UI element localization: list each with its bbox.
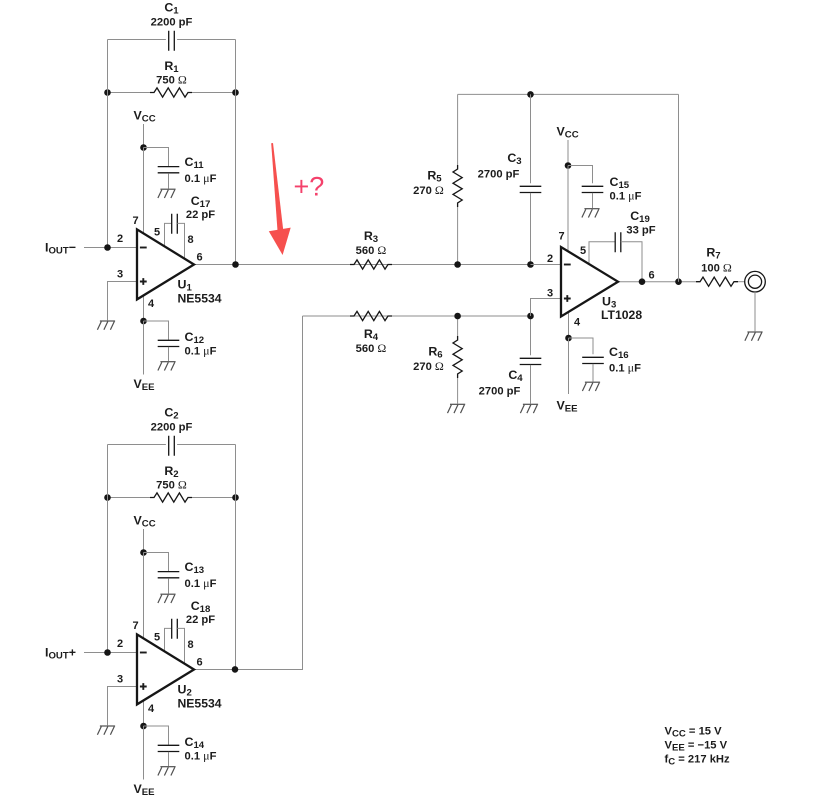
ground under C16 bbox=[582, 382, 600, 391]
svg-text:5: 5 bbox=[154, 227, 160, 239]
wire pin2 U3 segment bbox=[531, 264, 562, 266]
wire pin5 U1 bbox=[165, 223, 172, 245]
value R1 750 ohm bbox=[156, 73, 187, 87]
svg-text:LT1028: LT1028 bbox=[601, 308, 642, 322]
wire C11 to ground bbox=[168, 173, 170, 188]
net VCC U2 bbox=[134, 514, 156, 530]
svg-text:8: 8 bbox=[187, 234, 193, 246]
label C1 bbox=[164, 1, 179, 17]
wire VCC stub U3 bbox=[567, 140, 569, 166]
value C1 2200 pF bbox=[151, 17, 193, 29]
label R5 bbox=[427, 169, 442, 185]
junction input U2 bbox=[104, 649, 111, 656]
wire R2 left bbox=[108, 497, 151, 499]
junction C3 top bbox=[527, 91, 534, 98]
resistor R6 bbox=[453, 336, 462, 378]
svg-text:2200 pF: 2200 pF bbox=[151, 422, 193, 434]
pin 5 U2 bbox=[154, 632, 160, 644]
svg-text:0.1 μF: 0.1 μF bbox=[185, 576, 217, 590]
op-amp U3 LT1028 bbox=[561, 247, 618, 317]
resistor R2 bbox=[150, 493, 192, 502]
resistor R7 bbox=[696, 277, 738, 286]
svg-text:4: 4 bbox=[148, 703, 155, 715]
junction R2 right bbox=[232, 494, 239, 501]
ground under C13 bbox=[158, 594, 176, 603]
svg-text:2: 2 bbox=[117, 233, 123, 245]
label C2 bbox=[164, 406, 178, 422]
wire left rail U2 bbox=[107, 445, 109, 653]
op-amp U1 NE5534 bbox=[137, 229, 194, 299]
label R7 bbox=[706, 246, 720, 262]
wire pin8 U2 bbox=[177, 628, 184, 663]
pin 7 U2 bbox=[132, 620, 138, 632]
value R3 560 ohm bbox=[356, 243, 387, 257]
value C3 2700 pF bbox=[478, 169, 520, 181]
value R7 100 ohm bbox=[701, 261, 732, 275]
resistor R5 bbox=[453, 165, 462, 207]
ground under C15 bbox=[582, 209, 600, 218]
wire left rail U1 bbox=[107, 40, 109, 248]
label R3 bbox=[364, 229, 378, 245]
junction R2 left bbox=[104, 494, 111, 501]
svg-text:3: 3 bbox=[117, 674, 123, 686]
svg-text:100 Ω: 100 Ω bbox=[701, 261, 732, 275]
wire pin7 U3 bbox=[567, 166, 569, 252]
node IOUT- bbox=[45, 241, 76, 257]
resistor R1 bbox=[150, 88, 192, 97]
annotation red arrow bbox=[269, 143, 291, 255]
ground under C4 bbox=[520, 404, 538, 413]
wire connector to ground bbox=[754, 292, 756, 331]
capacitor C15 bbox=[582, 186, 604, 192]
junction VCC U3 bbox=[565, 162, 572, 169]
svg-text:3: 3 bbox=[547, 288, 553, 300]
label C19 bbox=[630, 209, 650, 225]
pin 6 U1 bbox=[196, 252, 202, 264]
pin 8 U2 bbox=[187, 639, 193, 651]
ground under C14 bbox=[158, 767, 176, 776]
junction R5 pin2 bbox=[454, 261, 461, 268]
wire R5 bottom bbox=[457, 207, 459, 265]
wire R6 bottom bbox=[457, 378, 459, 404]
resistor R3 bbox=[350, 260, 392, 269]
wire output U3 bbox=[618, 281, 696, 283]
ground under R6 bbox=[448, 404, 466, 413]
svg-text:NE5534: NE5534 bbox=[178, 292, 222, 306]
svg-text:0.1 μF: 0.1 μF bbox=[185, 749, 217, 763]
wire pin3 U3 bbox=[531, 299, 562, 317]
capacitor C2 bbox=[169, 436, 175, 456]
capacitor C1 bbox=[169, 31, 175, 51]
wire output U2 bbox=[194, 316, 303, 670]
svg-text:7: 7 bbox=[132, 620, 138, 632]
svg-text:0.1 μF: 0.1 μF bbox=[610, 189, 642, 203]
wire C3 bottom bbox=[530, 193, 532, 265]
note VCC = 15 V bbox=[665, 726, 723, 740]
net VCC U1 bbox=[134, 109, 156, 125]
svg-text:5: 5 bbox=[154, 632, 160, 644]
pin 6 U2 bbox=[196, 657, 202, 669]
plus input mark U1 bbox=[140, 278, 147, 285]
minus input mark U2 bbox=[140, 652, 147, 654]
wire C13 lead bbox=[144, 553, 169, 572]
wire C4 top bbox=[530, 316, 532, 355]
pin 2 U1 bbox=[117, 233, 123, 245]
capacitor C18 bbox=[172, 619, 178, 639]
label C3 bbox=[507, 151, 521, 167]
junction VEE U2 bbox=[140, 723, 147, 730]
svg-text:3: 3 bbox=[117, 269, 123, 281]
junction U1 output bbox=[232, 261, 239, 268]
wire output U1 bbox=[194, 264, 561, 266]
wire VCC stub U2 bbox=[143, 529, 145, 553]
svg-text:270 Ω: 270 Ω bbox=[413, 183, 444, 197]
svg-text:6: 6 bbox=[196, 252, 202, 264]
pin 4 U3 bbox=[574, 317, 581, 329]
node IOUT+ bbox=[45, 646, 76, 662]
value C12 0.1 uF bbox=[185, 344, 217, 358]
value C18 22 pF bbox=[186, 614, 215, 626]
pin 7 U3 bbox=[558, 231, 564, 243]
wire pin3 U1 bbox=[108, 282, 138, 321]
wire pin3 U2 bbox=[108, 687, 138, 726]
net VEE U2 bbox=[134, 782, 156, 798]
pin 2 U3 bbox=[547, 253, 553, 265]
svg-text:4: 4 bbox=[574, 317, 581, 329]
svg-text:270 Ω: 270 Ω bbox=[413, 359, 444, 373]
value C2 2200 pF bbox=[151, 422, 193, 434]
wire R1 left bbox=[108, 92, 151, 94]
ground pin3 U1 bbox=[97, 321, 115, 330]
pin 8 U1 bbox=[187, 234, 193, 246]
label NE5534 U2 bbox=[178, 697, 222, 711]
label C14 bbox=[185, 735, 205, 751]
svg-text:2700 pF: 2700 pF bbox=[478, 169, 520, 181]
wire R2 right bbox=[192, 497, 236, 499]
wire VEE U1 bbox=[143, 321, 145, 375]
value C17 22 pF bbox=[186, 209, 215, 221]
capacitor C14 bbox=[158, 745, 180, 751]
svg-text:2200 pF: 2200 pF bbox=[151, 17, 193, 29]
label U2 bbox=[178, 683, 192, 699]
net VCC U3 bbox=[557, 125, 579, 141]
ground under C12 bbox=[158, 362, 176, 371]
wire R1 right bbox=[192, 92, 236, 94]
wire pin2 U2 bbox=[84, 652, 137, 654]
pin 7 U1 bbox=[132, 215, 138, 227]
ground connector bbox=[745, 332, 763, 341]
wire C15 to ground bbox=[592, 193, 594, 208]
wire C14 lead bbox=[144, 726, 169, 745]
value C15 0.1 uF bbox=[610, 189, 642, 203]
label R4 bbox=[364, 327, 379, 343]
label R6 bbox=[428, 345, 442, 361]
plus input mark U2 bbox=[140, 683, 147, 690]
wire pin8 U1 bbox=[177, 223, 184, 258]
wire VEE U3 bbox=[568, 338, 570, 394]
resistor R4 bbox=[350, 311, 392, 320]
pin 5 U3 bbox=[580, 245, 586, 257]
wire right rail U1 bbox=[235, 40, 237, 265]
capacitor C19 bbox=[615, 232, 621, 252]
minus input mark U1 bbox=[140, 247, 147, 249]
svg-text:5: 5 bbox=[580, 245, 586, 257]
wire C16 lead bbox=[569, 338, 594, 354]
wire pin2 U1 bbox=[84, 247, 137, 249]
wire R5 top bbox=[457, 94, 459, 165]
value C19 33 pF bbox=[626, 225, 655, 237]
pin 3 U1 bbox=[117, 269, 123, 281]
value C4 2700 pF bbox=[479, 386, 521, 398]
svg-text:22 pF: 22 pF bbox=[186, 614, 215, 626]
junction C19 output bbox=[639, 278, 646, 285]
label C13 bbox=[185, 560, 205, 576]
junction VCC U2 bbox=[140, 549, 147, 556]
value R6 270 ohm bbox=[413, 359, 444, 373]
label C4 bbox=[508, 368, 523, 384]
wire C12 lead bbox=[144, 321, 169, 340]
wire pin7 U2 bbox=[143, 553, 145, 639]
junction R1 left bbox=[104, 89, 111, 96]
capacitor C3 bbox=[520, 186, 542, 192]
note VEE = -15 V bbox=[665, 740, 728, 754]
label C15 bbox=[610, 175, 630, 191]
svg-text:6: 6 bbox=[648, 270, 654, 282]
wire C1 top right bbox=[177, 39, 235, 41]
capacitor C13 bbox=[158, 572, 180, 578]
pin 4 U2 bbox=[148, 703, 155, 715]
value R2 750 ohm bbox=[156, 478, 187, 492]
wire C12 to ground bbox=[168, 347, 170, 361]
junction VEE U1 bbox=[140, 318, 147, 325]
label C11 bbox=[185, 155, 205, 171]
svg-text:560 Ω: 560 Ω bbox=[356, 243, 387, 257]
junction U2 output bbox=[232, 666, 239, 673]
pin 2 U2 bbox=[117, 638, 123, 650]
svg-text:2: 2 bbox=[547, 253, 553, 265]
wire C15 lead bbox=[568, 166, 593, 184]
wire R7 to connector bbox=[738, 281, 744, 283]
label U3 bbox=[602, 295, 616, 311]
wire C13 to ground bbox=[168, 578, 170, 593]
junction input U1 bbox=[104, 244, 111, 251]
pin 4 U1 bbox=[148, 298, 155, 310]
annotation +? text bbox=[294, 172, 325, 202]
wire R6 top bbox=[457, 316, 459, 336]
wire pin5 U3 bbox=[589, 242, 615, 264]
wire pin5 U2 bbox=[165, 628, 172, 650]
wire C4 to ground bbox=[530, 365, 532, 404]
plus input mark U3 bbox=[564, 295, 571, 302]
wire feedback right bbox=[678, 94, 680, 281]
pin 3 U2 bbox=[117, 674, 123, 686]
junction C4 top bbox=[527, 313, 534, 320]
capacitor C11 bbox=[158, 167, 180, 173]
wire VEE U2 bbox=[143, 726, 145, 780]
wire right rail U2 bbox=[235, 445, 237, 670]
svg-text:NE5534: NE5534 bbox=[178, 697, 222, 711]
label U1 bbox=[178, 278, 193, 294]
value R4 560 ohm bbox=[356, 341, 387, 355]
capacitor C16 bbox=[582, 357, 604, 363]
svg-text:2: 2 bbox=[117, 638, 123, 650]
svg-text:4: 4 bbox=[148, 298, 155, 310]
net VEE U3 bbox=[557, 399, 579, 415]
label R1 bbox=[164, 59, 179, 75]
wire pin4 U2 bbox=[143, 700, 145, 726]
wire R4 line bbox=[303, 315, 531, 317]
wire C2 top right bbox=[177, 444, 235, 446]
value C11 0.1 uF bbox=[185, 171, 217, 185]
label C18 bbox=[191, 599, 211, 615]
op-amp U2 NE5534 bbox=[137, 634, 194, 704]
pin 5 U1 bbox=[154, 227, 160, 239]
wire C16 to ground bbox=[592, 364, 594, 382]
wire pin7 U1 bbox=[143, 148, 145, 234]
junction C3 pin2 bbox=[527, 261, 534, 268]
svg-text:750 Ω: 750 Ω bbox=[156, 73, 187, 87]
value R5 270 ohm bbox=[413, 183, 444, 197]
svg-text:7: 7 bbox=[132, 215, 138, 227]
label NE5534 U1 bbox=[178, 292, 222, 306]
svg-text:0.1 μF: 0.1 μF bbox=[609, 361, 641, 375]
junction R1 right bbox=[232, 89, 239, 96]
wire feedback top bbox=[458, 93, 679, 95]
junction VEE U3 bbox=[565, 335, 572, 342]
value C13 0.1 uF bbox=[185, 576, 217, 590]
svg-text:8: 8 bbox=[187, 639, 193, 651]
label LT1028 bbox=[601, 308, 642, 322]
junction VCC U1 bbox=[140, 144, 147, 151]
svg-text:6: 6 bbox=[196, 657, 202, 669]
wire VCC stub U1 bbox=[143, 124, 145, 148]
wire pin8 C19 to output bbox=[621, 242, 642, 282]
svg-text:560 Ω: 560 Ω bbox=[356, 341, 387, 355]
svg-text:2700 pF: 2700 pF bbox=[479, 386, 521, 398]
pin 3 U3 bbox=[547, 288, 553, 300]
capacitor C12 bbox=[158, 340, 180, 346]
svg-text:+?: +? bbox=[294, 172, 325, 202]
net VEE U1 bbox=[134, 377, 156, 393]
ground under C11 bbox=[158, 189, 176, 198]
connector J1 output jack bbox=[745, 271, 766, 292]
ground pin3 U2 bbox=[97, 726, 115, 735]
svg-text:0.1 μF: 0.1 μF bbox=[185, 171, 217, 185]
wire C3 top bbox=[530, 94, 532, 183]
svg-text:0.1 μF: 0.1 μF bbox=[185, 344, 217, 358]
wire pin4 U3 bbox=[568, 312, 570, 338]
label C12 bbox=[185, 330, 205, 346]
value C16 0.1 uF bbox=[609, 361, 641, 375]
capacitor C4 bbox=[520, 358, 542, 364]
pin 6 U3 bbox=[648, 270, 654, 282]
svg-text:750 Ω: 750 Ω bbox=[156, 478, 187, 492]
svg-text:7: 7 bbox=[558, 231, 564, 243]
svg-text:33 pF: 33 pF bbox=[626, 225, 655, 237]
capacitor C17 bbox=[172, 214, 178, 234]
minus input mark U3 bbox=[564, 264, 571, 266]
label C17 bbox=[191, 194, 211, 210]
wire C2 top left bbox=[108, 444, 166, 446]
label R2 bbox=[164, 464, 178, 480]
svg-text:22 pF: 22 pF bbox=[186, 209, 215, 221]
junction R6 top bbox=[454, 313, 461, 320]
wire C1 top left bbox=[108, 39, 166, 41]
junction feedback output bbox=[675, 278, 682, 285]
note fc = 217 kHz bbox=[665, 754, 730, 768]
wire C14 to ground bbox=[168, 752, 170, 766]
wire C11 lead bbox=[144, 148, 169, 167]
label C16 bbox=[609, 345, 629, 361]
wire pin4 U1 bbox=[143, 295, 145, 321]
value C14 0.1 uF bbox=[185, 749, 217, 763]
